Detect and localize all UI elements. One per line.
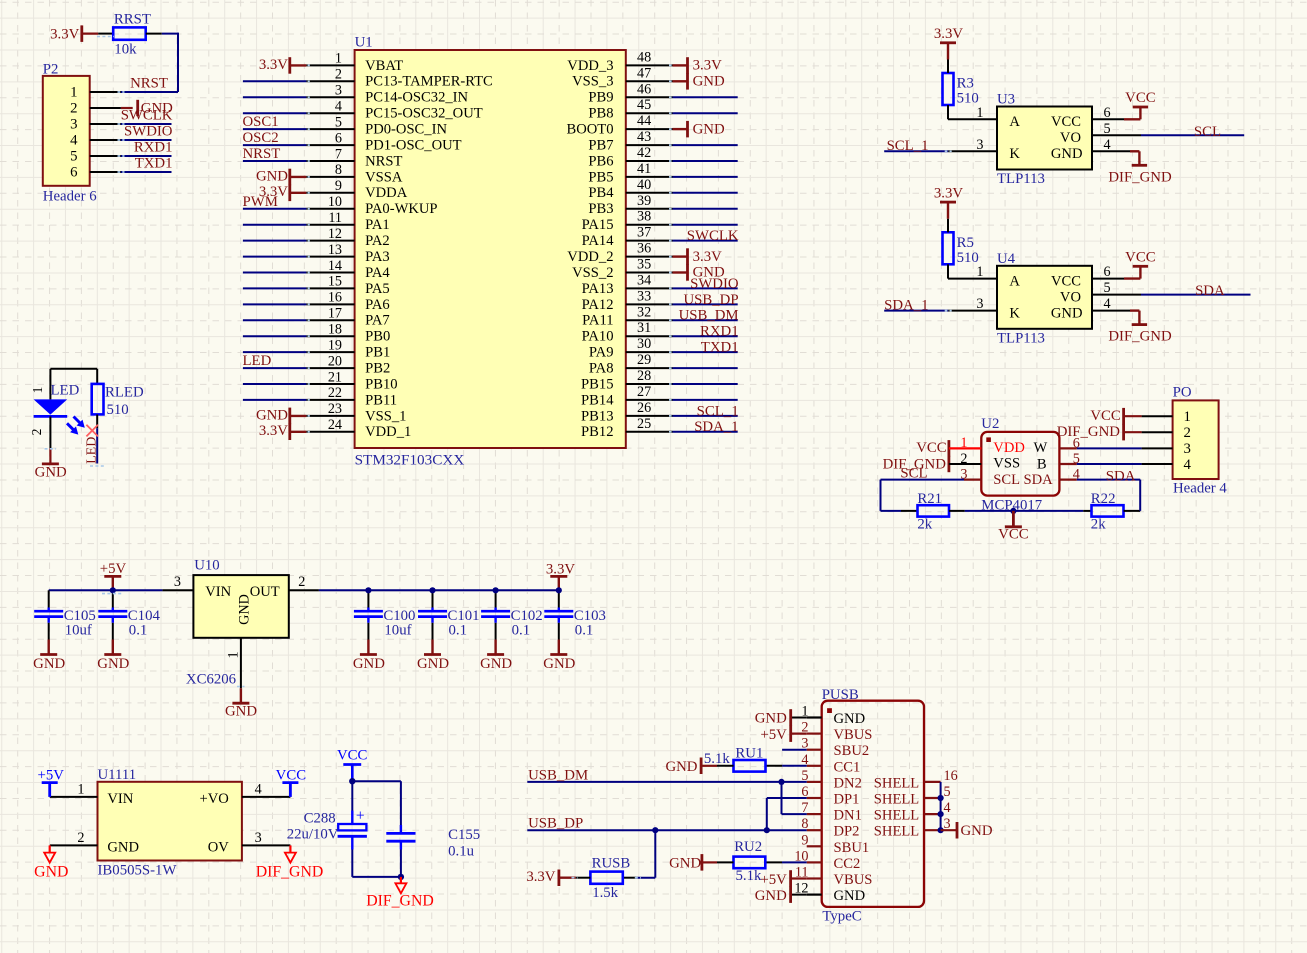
svg-text:PB4: PB4 [588, 185, 614, 201]
svg-text:4: 4 [255, 781, 262, 797]
svg-text:VSS: VSS [993, 456, 1020, 472]
svg-text:GND: GND [693, 74, 725, 90]
svg-text:NRST: NRST [365, 153, 402, 169]
svg-text:PC14-OSC32_IN: PC14-OSC32_IN [365, 90, 468, 106]
svg-text:4: 4 [1184, 457, 1192, 473]
svg-text:GND: GND [353, 656, 385, 672]
svg-text:PB14: PB14 [581, 392, 614, 408]
svg-text:4: 4 [1104, 296, 1111, 312]
svg-text:29: 29 [637, 352, 651, 368]
svg-text:1: 1 [70, 85, 77, 101]
svg-text:PD0-OSC_IN: PD0-OSC_IN [365, 122, 447, 138]
svg-text:GND: GND [755, 888, 787, 904]
svg-text:1: 1 [976, 264, 983, 280]
svg-text:SHELL: SHELL [874, 775, 919, 791]
svg-text:GND: GND [256, 168, 288, 184]
svg-text:VBUS: VBUS [834, 727, 873, 743]
svg-text:GND: GND [669, 855, 701, 871]
svg-text:K: K [1009, 305, 1020, 321]
svg-text:U1111: U1111 [98, 767, 137, 783]
svg-text:18: 18 [328, 322, 342, 338]
svg-text:2: 2 [77, 830, 84, 846]
svg-text:5.1k: 5.1k [704, 751, 730, 767]
svg-text:36: 36 [637, 241, 651, 257]
svg-text:3.3V: 3.3V [50, 27, 79, 43]
svg-text:SBU2: SBU2 [834, 743, 870, 759]
svg-text:RLED: RLED [105, 385, 144, 401]
svg-text:DN1: DN1 [834, 808, 862, 824]
svg-text:CC2: CC2 [834, 856, 861, 872]
svg-text:GND: GND [256, 407, 288, 423]
svg-text:1: 1 [1184, 409, 1191, 425]
svg-text:25: 25 [637, 416, 651, 432]
svg-text:VSSA: VSSA [365, 169, 403, 185]
svg-text:PB5: PB5 [588, 169, 613, 185]
svg-text:20: 20 [328, 353, 342, 369]
svg-text:Header 4: Header 4 [1173, 481, 1227, 497]
svg-text:C155: C155 [448, 827, 480, 843]
svg-text:PA1: PA1 [365, 217, 390, 233]
svg-text:PB6: PB6 [588, 153, 613, 169]
svg-text:3: 3 [255, 830, 262, 846]
svg-text:2: 2 [298, 574, 305, 590]
svg-text:SWCLK: SWCLK [121, 108, 173, 124]
svg-text:RUSB: RUSB [592, 856, 631, 872]
svg-text:VCC: VCC [916, 440, 947, 456]
svg-text:21: 21 [328, 369, 342, 385]
svg-text:3.3V: 3.3V [693, 58, 722, 74]
svg-text:PA4: PA4 [365, 265, 390, 281]
svg-text:LED: LED [84, 437, 99, 464]
svg-text:3.3V: 3.3V [259, 423, 288, 439]
svg-text:VIN: VIN [205, 584, 231, 600]
svg-text:SDA_1: SDA_1 [884, 297, 928, 313]
svg-text:GND: GND [543, 656, 575, 672]
svg-text:DIF_GND: DIF_GND [256, 864, 324, 881]
svg-text:3: 3 [976, 137, 983, 153]
svg-text:1: 1 [226, 651, 242, 658]
svg-text:41: 41 [637, 161, 651, 177]
svg-text:PB1: PB1 [365, 345, 390, 361]
svg-text:510: 510 [107, 402, 129, 418]
svg-text:10uf: 10uf [384, 622, 411, 638]
svg-text:2k: 2k [1091, 517, 1106, 533]
svg-text:6: 6 [70, 165, 77, 181]
svg-text:13: 13 [328, 242, 342, 258]
svg-text:+VO: +VO [199, 791, 228, 807]
svg-text:1: 1 [30, 387, 45, 394]
svg-text:SHELL: SHELL [874, 792, 919, 808]
svg-text:DIF_GND: DIF_GND [1108, 169, 1172, 185]
svg-text:33: 33 [637, 288, 651, 304]
svg-text:SWDIO: SWDIO [690, 276, 739, 292]
svg-text:4: 4 [1104, 137, 1111, 153]
svg-text:2: 2 [335, 67, 342, 83]
svg-text:PO: PO [1173, 385, 1192, 401]
svg-text:6: 6 [335, 130, 342, 146]
svg-text:PA12: PA12 [582, 297, 614, 313]
svg-text:GND: GND [961, 823, 993, 839]
svg-text:GND: GND [834, 711, 866, 727]
svg-text:5.1k: 5.1k [736, 868, 762, 884]
svg-text:SCL_1: SCL_1 [887, 138, 929, 154]
svg-text:RXD1: RXD1 [700, 324, 739, 340]
svg-text:VSS_3: VSS_3 [572, 74, 613, 90]
svg-text:48: 48 [637, 49, 651, 65]
svg-text:22: 22 [328, 385, 342, 401]
svg-text:28: 28 [637, 368, 651, 384]
svg-text:VSS_2: VSS_2 [572, 265, 613, 281]
svg-text:TXD1: TXD1 [135, 156, 173, 172]
svg-text:+5V: +5V [100, 561, 127, 577]
svg-text:GND: GND [107, 839, 139, 855]
svg-text:OSC1: OSC1 [243, 114, 279, 130]
svg-text:XC6206: XC6206 [186, 672, 236, 688]
svg-text:PUSB: PUSB [822, 687, 859, 703]
svg-text:10uf: 10uf [65, 622, 92, 638]
svg-text:7: 7 [335, 146, 342, 162]
svg-text:PA11: PA11 [582, 313, 613, 329]
svg-text:3.3V: 3.3V [693, 249, 722, 265]
svg-text:K: K [1009, 146, 1020, 162]
svg-text:LED: LED [51, 383, 80, 399]
svg-text:8: 8 [335, 162, 342, 178]
svg-text:VO: VO [1060, 289, 1081, 305]
svg-text:PA7: PA7 [365, 313, 390, 329]
svg-text:PA3: PA3 [365, 249, 390, 265]
svg-text:SCL_1: SCL_1 [697, 403, 739, 419]
svg-text:USB_DM: USB_DM [679, 308, 739, 324]
svg-text:45: 45 [637, 97, 651, 113]
svg-text:GND: GND [97, 656, 129, 672]
svg-text:31: 31 [637, 320, 651, 336]
svg-text:0.1: 0.1 [512, 622, 530, 638]
svg-text:U10: U10 [194, 558, 219, 574]
svg-text:40: 40 [637, 177, 651, 193]
svg-text:VBUS: VBUS [834, 872, 873, 888]
svg-text:U3: U3 [997, 92, 1015, 108]
svg-text:GND: GND [35, 465, 67, 481]
svg-text:PB9: PB9 [588, 90, 613, 106]
svg-text:PA13: PA13 [582, 281, 614, 297]
svg-text:0.1: 0.1 [129, 622, 148, 638]
svg-text:3: 3 [976, 296, 983, 312]
svg-text:Header 6: Header 6 [43, 189, 97, 205]
svg-text:OUT: OUT [250, 584, 280, 600]
svg-text:39: 39 [637, 193, 651, 209]
svg-text:SHELL: SHELL [874, 824, 919, 840]
svg-text:TypeC: TypeC [822, 909, 861, 925]
svg-text:DP2: DP2 [834, 824, 860, 840]
svg-text:GND: GND [834, 888, 866, 904]
svg-text:0.1: 0.1 [575, 622, 594, 638]
svg-text:PB0: PB0 [365, 329, 390, 345]
svg-text:VCC: VCC [1051, 114, 1081, 130]
svg-text:SDA: SDA [1195, 283, 1225, 299]
svg-text:PC13-TAMPER-RTC: PC13-TAMPER-RTC [365, 74, 493, 90]
svg-text:VDD: VDD [993, 440, 1025, 456]
svg-text:38: 38 [637, 209, 651, 225]
svg-text:BOOT0: BOOT0 [566, 122, 613, 138]
svg-text:VDD_3: VDD_3 [567, 58, 613, 74]
svg-text:PA10: PA10 [582, 329, 614, 345]
svg-text:1.5k: 1.5k [592, 885, 618, 901]
svg-text:2: 2 [960, 451, 967, 467]
svg-text:SDA_1: SDA_1 [694, 419, 738, 435]
svg-text:9: 9 [335, 178, 342, 194]
svg-text:TLP113: TLP113 [997, 330, 1045, 346]
svg-text:PA2: PA2 [365, 233, 390, 249]
svg-text:2k: 2k [917, 517, 932, 533]
svg-text:PA6: PA6 [365, 297, 390, 313]
svg-text:3: 3 [335, 83, 342, 99]
svg-text:47: 47 [637, 65, 651, 81]
svg-text:26: 26 [637, 400, 651, 416]
svg-text:PB10: PB10 [365, 376, 397, 392]
svg-text:+5V: +5V [760, 727, 787, 743]
svg-text:C288: C288 [304, 811, 336, 827]
svg-text:PB15: PB15 [581, 376, 613, 392]
svg-text:R5: R5 [957, 235, 974, 251]
svg-text:+5V: +5V [760, 872, 787, 888]
svg-text:RRST: RRST [114, 12, 151, 28]
svg-text:GND: GND [665, 759, 697, 775]
svg-text:GND: GND [1051, 146, 1083, 162]
svg-text:GND: GND [33, 656, 65, 672]
svg-text:R22: R22 [1091, 491, 1116, 507]
svg-text:GND: GND [755, 711, 787, 727]
svg-text:TXD1: TXD1 [701, 340, 739, 356]
svg-text:1: 1 [976, 105, 983, 121]
svg-text:SCL: SCL [900, 465, 927, 481]
svg-text:4: 4 [70, 133, 78, 149]
svg-text:5: 5 [335, 114, 342, 130]
svg-text:DIF_GND: DIF_GND [366, 893, 434, 910]
svg-text:VDD_2: VDD_2 [567, 249, 613, 265]
svg-text:PB11: PB11 [365, 392, 397, 408]
svg-text:PB12: PB12 [581, 424, 613, 440]
svg-text:PB8: PB8 [588, 106, 613, 122]
svg-text:PA9: PA9 [589, 345, 614, 361]
svg-text:3.3V: 3.3V [526, 869, 555, 885]
svg-text:12: 12 [328, 226, 342, 242]
svg-text:W: W [1034, 440, 1048, 456]
svg-text:3: 3 [944, 816, 951, 832]
svg-text:+: + [356, 807, 365, 824]
svg-text:USB_DP: USB_DP [683, 292, 738, 308]
svg-text:2: 2 [70, 101, 77, 117]
svg-text:VCC: VCC [1125, 90, 1156, 106]
svg-text:GND: GND [225, 703, 257, 719]
svg-text:3.3V: 3.3V [934, 26, 963, 42]
svg-text:3.3V: 3.3V [934, 185, 963, 201]
svg-text:27: 27 [637, 384, 651, 400]
svg-text:VCC: VCC [1125, 249, 1156, 265]
svg-text:1: 1 [960, 435, 967, 451]
svg-text:SHELL: SHELL [874, 808, 919, 824]
svg-text:PB13: PB13 [581, 408, 613, 424]
svg-text:+5V: +5V [37, 768, 64, 784]
svg-text:B: B [1037, 456, 1047, 472]
svg-text:USB_DP: USB_DP [528, 816, 583, 832]
svg-text:OSC2: OSC2 [243, 130, 279, 146]
svg-text:SBU1: SBU1 [834, 840, 870, 856]
svg-text:SCL: SCL [993, 472, 1020, 488]
svg-text:VCC: VCC [276, 768, 307, 784]
svg-text:PA0-WKUP: PA0-WKUP [365, 201, 437, 217]
svg-text:LED: LED [243, 353, 272, 369]
svg-text:4: 4 [944, 800, 951, 816]
svg-text:1: 1 [77, 781, 84, 797]
svg-text:VDDA: VDDA [365, 185, 408, 201]
svg-text:P2: P2 [43, 62, 59, 78]
svg-text:VO: VO [1060, 130, 1081, 146]
svg-text:SDA: SDA [1106, 468, 1136, 484]
svg-text:VCC: VCC [1051, 273, 1081, 289]
svg-text:PA8: PA8 [589, 361, 614, 377]
svg-text:CC1: CC1 [834, 759, 861, 775]
svg-text:IB0505S-1W: IB0505S-1W [98, 863, 177, 879]
svg-text:U4: U4 [997, 251, 1016, 267]
svg-text:NRST: NRST [243, 146, 281, 162]
svg-text:NRST: NRST [130, 76, 168, 92]
svg-text:32: 32 [637, 304, 651, 320]
svg-text:5: 5 [1104, 121, 1111, 137]
svg-text:30: 30 [637, 336, 651, 352]
svg-text:PA15: PA15 [582, 217, 614, 233]
svg-text:DP1: DP1 [834, 792, 860, 808]
svg-text:RU2: RU2 [734, 839, 762, 855]
svg-text:DIF_GND: DIF_GND [1108, 329, 1172, 345]
svg-text:VCC: VCC [998, 527, 1029, 543]
svg-text:16: 16 [944, 768, 958, 784]
svg-text:3: 3 [1184, 441, 1191, 457]
svg-text:35: 35 [637, 257, 651, 273]
svg-text:RU1: RU1 [735, 746, 763, 762]
svg-text:2: 2 [1184, 425, 1191, 441]
svg-text:GND: GND [237, 594, 253, 625]
svg-text:SWCLK: SWCLK [687, 228, 739, 244]
svg-text:RXD1: RXD1 [134, 140, 173, 156]
svg-text:VIN: VIN [107, 791, 133, 807]
svg-text:PB7: PB7 [588, 138, 613, 154]
svg-text:PD1-OSC_OUT: PD1-OSC_OUT [365, 138, 462, 154]
svg-text:16: 16 [328, 290, 342, 306]
svg-text:GND: GND [480, 656, 512, 672]
svg-text:3.3V: 3.3V [259, 184, 288, 200]
svg-text:PA14: PA14 [582, 233, 615, 249]
svg-text:DIF_GND: DIF_GND [1057, 424, 1121, 440]
svg-text:6: 6 [1104, 105, 1111, 121]
svg-text:OV: OV [208, 839, 230, 855]
svg-text:11: 11 [328, 210, 342, 226]
svg-text:U2: U2 [981, 416, 999, 432]
svg-text:PB3: PB3 [588, 201, 613, 217]
svg-text:PC15-OSC32_OUT: PC15-OSC32_OUT [365, 106, 483, 122]
svg-text:22u/10V: 22u/10V [287, 827, 339, 843]
svg-text:U1: U1 [355, 35, 373, 51]
svg-text:15: 15 [328, 274, 342, 290]
svg-text:19: 19 [328, 337, 342, 353]
svg-text:VBAT: VBAT [365, 58, 403, 74]
svg-text:34: 34 [637, 272, 651, 288]
svg-text:3.3V: 3.3V [259, 57, 288, 73]
svg-text:10k: 10k [114, 42, 137, 58]
svg-text:24: 24 [328, 417, 342, 433]
svg-text:44: 44 [637, 113, 651, 129]
svg-text:0.1: 0.1 [449, 622, 468, 638]
svg-text:9: 9 [801, 832, 808, 848]
svg-text:A: A [1009, 273, 1020, 289]
svg-text:TLP113: TLP113 [997, 171, 1045, 187]
svg-text:PA5: PA5 [365, 281, 390, 297]
svg-text:R3: R3 [957, 76, 974, 92]
svg-text:5: 5 [944, 784, 951, 800]
svg-text:A: A [1009, 114, 1020, 130]
svg-text:37: 37 [637, 225, 651, 241]
svg-text:3: 3 [174, 574, 181, 590]
svg-text:GND: GND [417, 656, 449, 672]
svg-text:3: 3 [70, 117, 77, 133]
svg-text:VSS_1: VSS_1 [365, 408, 406, 424]
svg-text:GND: GND [34, 864, 68, 881]
svg-text:5: 5 [70, 149, 77, 165]
svg-text:VCC: VCC [337, 748, 368, 764]
svg-text:23: 23 [328, 401, 342, 417]
svg-text:SCL: SCL [1194, 124, 1221, 140]
svg-text:R21: R21 [917, 491, 942, 507]
svg-text:46: 46 [637, 81, 651, 97]
svg-text:43: 43 [637, 129, 651, 145]
svg-text:2: 2 [29, 429, 44, 436]
svg-text:GND: GND [1051, 305, 1083, 321]
svg-text:6: 6 [1104, 264, 1111, 280]
svg-text:VDD_1: VDD_1 [365, 424, 411, 440]
svg-text:SWDIO: SWDIO [124, 124, 173, 140]
svg-text:3: 3 [960, 466, 967, 482]
svg-text:1: 1 [335, 51, 342, 67]
svg-text:SDA: SDA [1024, 472, 1054, 488]
svg-text:4: 4 [335, 99, 342, 115]
svg-text:10: 10 [328, 194, 342, 210]
svg-text:17: 17 [328, 306, 342, 322]
svg-text:VCC: VCC [1090, 408, 1121, 424]
svg-text:0.1u: 0.1u [448, 844, 474, 860]
svg-text:42: 42 [637, 145, 651, 161]
svg-text:STM32F103CXX: STM32F103CXX [355, 452, 465, 469]
svg-text:5: 5 [1104, 280, 1111, 296]
svg-text:DN2: DN2 [834, 775, 862, 791]
svg-text:PB2: PB2 [365, 361, 390, 377]
svg-text:GND: GND [693, 121, 725, 137]
svg-text:14: 14 [328, 258, 342, 274]
svg-text:USB_DM: USB_DM [528, 767, 588, 783]
